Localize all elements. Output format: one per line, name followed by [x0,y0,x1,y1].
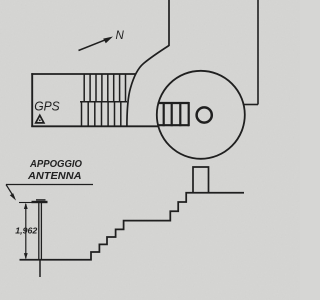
center column circle [197,107,212,122]
paper grain [0,0,1,1]
plan room top wall [31,73,136,75]
tower treads box [159,102,190,126]
outer wall arc [127,46,169,128]
GPS station triangle [36,115,44,123]
north arrow [79,37,114,51]
right wall horizontal to tower [243,104,258,106]
right wall vertical [257,0,259,105]
plan stairs lower flight [82,102,121,127]
plan room bottom wall [31,125,158,127]
plan stairs upper flight [84,74,125,102]
dimension extension line top [19,202,32,204]
antenna mast (double line) [39,203,42,260]
stair tower circle [157,71,245,159]
antenna plate upper stub [36,199,46,201]
label underline [6,184,93,186]
plan room left wall [31,73,33,127]
plan landing divider [80,101,127,103]
dimension line 1,962 [24,203,28,259]
leader arrow to antenna [6,185,16,201]
section staircase profile [20,193,245,260]
pedestal at top landing [193,167,209,193]
antenna top plate [32,201,48,203]
antenna mast below floor [39,260,41,277]
tower wall vertical (top) [168,0,170,46]
